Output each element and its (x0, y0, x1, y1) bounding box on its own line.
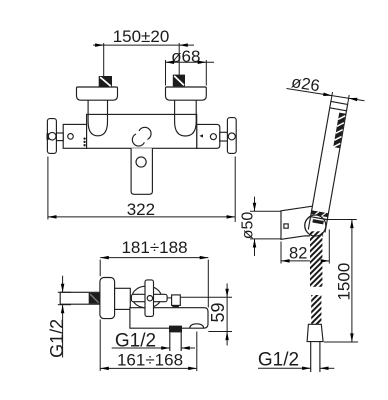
svg-text:322: 322 (127, 200, 155, 219)
left escutcheon (77, 87, 118, 100)
temperature marker on body right (199, 134, 203, 137)
svg-text:59: 59 (208, 302, 228, 322)
right escutcheon (166, 87, 207, 100)
right union circle (210, 134, 216, 140)
right wall stem (220, 132, 228, 141)
right cross handle bar (227, 118, 236, 154)
right column dome (175, 114, 197, 136)
wall pipe hatched section (89, 293, 100, 304)
cross handle horizontal bar (131, 294, 167, 301)
dimension 181÷188 extension right (207, 260, 209, 308)
handle end nut (dark band above ring) (311, 210, 328, 217)
body side (115, 288, 131, 309)
dimension 181÷188 extension left (99, 260, 101, 277)
hose coupling in ring (black) (312, 219, 323, 224)
svg-text:82: 82 (289, 245, 307, 263)
hose nipple G1/2 (310, 342, 312, 372)
svg-text:150±20: 150±20 (113, 27, 170, 46)
left column dome (88, 114, 107, 135)
aerator dome on spout underside (190, 324, 204, 328)
shower hose lower segment (hatched) (311, 295, 321, 324)
svg-text:G1/2: G1/2 (47, 319, 67, 358)
left union circle (68, 134, 74, 140)
extension line 59 top / diverter link (167, 297, 171, 299)
spout circle (136, 157, 146, 167)
tube end line in ring (311, 217, 328, 220)
spout side (130, 308, 208, 329)
left column neck (87, 100, 89, 114)
left cross handle bar (47, 119, 56, 154)
bracket ring (fill) (305, 215, 326, 236)
right union block (197, 124, 220, 148)
shower hose upper segment (hatched) (310, 231, 322, 286)
svg-text:181÷188: 181÷188 (121, 238, 187, 257)
left wall stem (56, 133, 63, 141)
diverter knob (172, 295, 181, 306)
wall bracket (281, 206, 323, 239)
shower handle tube (308, 101, 347, 232)
cross handle vertical bar (145, 280, 154, 317)
diverter knob shadow (172, 305, 179, 307)
handle rosette ellipse (132, 286, 161, 308)
svg-text:161÷168: 161÷168 (117, 351, 183, 370)
svg-text:ø68: ø68 (171, 47, 200, 66)
main body (87, 114, 197, 148)
svg-text:1500: 1500 (335, 263, 354, 301)
spray face strip (hatched) (333, 113, 345, 149)
left handle cap (hatched) (99, 76, 112, 87)
svg-text:ø50: ø50 (240, 212, 257, 240)
left union block (63, 124, 86, 148)
left handle black hub (47, 133, 50, 139)
shower outlet thread (black) (169, 326, 182, 333)
temperature dots on left union (83, 137, 85, 139)
left handle circle (48, 132, 56, 140)
cross handle hub circle (147, 296, 152, 301)
svg-text:G1/2: G1/2 (258, 349, 299, 370)
shower outlet nipple (169, 332, 171, 351)
hand shower (rotated group) (308, 101, 347, 232)
right handle cap (hatched) (173, 75, 185, 87)
bracket screw square (284, 224, 288, 228)
right column neck (174, 100, 176, 114)
wall flange (100, 278, 115, 319)
broken circle on body center (139, 127, 151, 139)
handle joint line (330, 108, 347, 111)
spout front (131, 148, 152, 194)
wall supply pipe (60, 292, 100, 304)
bracket ring (outline) (305, 215, 326, 236)
right handle circle (228, 133, 235, 140)
hose end cone (307, 324, 323, 341)
